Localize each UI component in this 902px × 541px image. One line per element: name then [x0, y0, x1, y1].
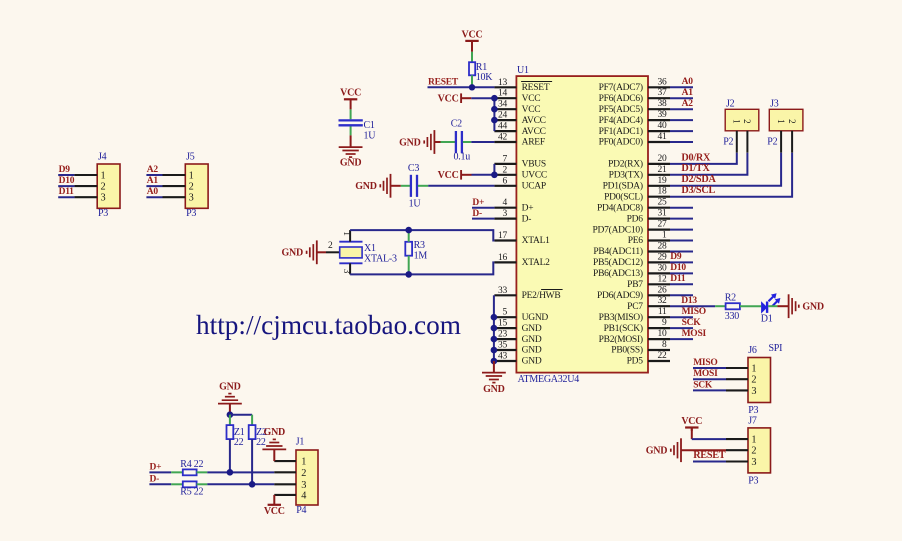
J4 pin 3 [74, 193, 105, 204]
svg-text:D13: D13 [681, 296, 697, 306]
U1 pin 43 GND [494, 352, 541, 367]
junction ground bus pin 5 [491, 314, 498, 321]
svg-text:D10: D10 [670, 263, 686, 273]
junction VCC bus pin 14 [491, 95, 498, 102]
wire R1 to RESET net [471, 75, 473, 87]
svg-text:D1: D1 [761, 313, 773, 324]
svg-text:XTAL-3: XTAL-3 [364, 253, 397, 264]
wire D+ to R4 [149, 471, 182, 473]
power VCC port at U1 pin 14 [438, 93, 461, 104]
wire unconnected net pin 26 [670, 294, 693, 296]
svg-text:1M: 1M [414, 251, 428, 262]
wire C1 to GND [350, 126, 352, 147]
svg-text:PD4(ADC8): PD4(ADC8) [597, 202, 643, 213]
wire RESET net to U1 pin 13 [428, 86, 495, 88]
svg-text:10: 10 [658, 329, 668, 339]
svg-text:38: 38 [658, 99, 668, 109]
svg-text:40: 40 [658, 121, 668, 131]
svg-text:37: 37 [658, 88, 668, 98]
wire VCC port to bus [461, 97, 494, 99]
svg-text:D-: D- [472, 209, 482, 219]
svg-text:GND: GND [522, 357, 542, 367]
net label D+ at USB [150, 463, 162, 473]
svg-text:R2: R2 [725, 292, 736, 303]
svg-text:UCAP: UCAP [522, 182, 546, 192]
wire Z2 to D- net [251, 439, 253, 484]
svg-text:MISO: MISO [682, 307, 706, 317]
wire net D13 [670, 305, 715, 307]
U1 pin 22 PD5 [627, 351, 670, 367]
svg-text:R4 22: R4 22 [180, 459, 203, 470]
svg-text:GND: GND [264, 427, 286, 438]
U1 pin 36 PF7(ADC7) [599, 77, 670, 93]
connector J5 [185, 152, 208, 220]
wire VCC to R1 [471, 52, 473, 62]
svg-text:4: 4 [503, 198, 508, 208]
J1 pin 1 [274, 457, 306, 468]
power VCC port at U1 pin 2 [438, 170, 461, 181]
url text http://cjmcu.taobao.com [196, 310, 461, 340]
U1 pin 35 GND [494, 341, 541, 356]
U1 pin 40 PF1(ADC1) [599, 121, 670, 137]
ground above J1 pin 1 [262, 427, 286, 449]
svg-text:12: 12 [658, 274, 668, 284]
svg-text:2: 2 [189, 182, 194, 193]
LED D1 [761, 293, 781, 324]
net label SCK at J6 [693, 380, 713, 390]
svg-text:25: 25 [658, 198, 668, 208]
svg-text:1: 1 [751, 435, 756, 446]
svg-text:0.1u: 0.1u [454, 152, 471, 163]
net label A0 [682, 77, 694, 87]
svg-text:PB1(SCK): PB1(SCK) [604, 323, 643, 334]
svg-text:43: 43 [498, 352, 508, 362]
svg-text:SCK: SCK [682, 318, 702, 328]
svg-text:D3/SCL: D3/SCL [681, 185, 715, 196]
svg-text:SPI: SPI [769, 343, 783, 354]
svg-text:PD1(SDA): PD1(SDA) [603, 181, 643, 192]
wire net D11 [670, 283, 693, 285]
U1 pin 26 PD6(ADC9) [597, 285, 670, 301]
svg-text:PF6(ADC6): PF6(ADC6) [599, 93, 643, 104]
net label A2 at J5 [147, 165, 159, 175]
net label D11 [670, 274, 686, 284]
svg-text:GND: GND [282, 248, 304, 259]
svg-text:PF1(ADC1): PF1(ADC1) [599, 126, 643, 137]
wire PE2 to ground bus [493, 295, 495, 318]
wire net D10 [670, 272, 693, 274]
svg-text:PD2(RX): PD2(RX) [608, 159, 643, 170]
svg-text:PB0(SS): PB0(SS) [611, 345, 643, 356]
svg-text:GND: GND [399, 137, 421, 148]
svg-text:9: 9 [662, 318, 667, 328]
U1 pin 41 PF0(ADC0) [599, 132, 670, 148]
svg-text:RESET: RESET [522, 83, 550, 93]
svg-text:1U: 1U [409, 198, 422, 209]
svg-text:1: 1 [776, 119, 786, 123]
net label SCK at U1 [682, 318, 702, 328]
X1 pin 1 stub [349, 230, 351, 242]
U1 pin 3 D- [494, 209, 531, 224]
junction VCC bus pin 34 [491, 106, 498, 113]
svg-text:5: 5 [503, 308, 508, 318]
U1 pin 21 PD3(TX) [609, 165, 670, 181]
wire C3 to U1 UCAP [418, 185, 494, 187]
svg-text:C2: C2 [451, 118, 462, 129]
svg-text:8: 8 [662, 340, 667, 350]
svg-text:PD3(TX): PD3(TX) [609, 170, 643, 181]
svg-text:VCC: VCC [522, 105, 541, 115]
svg-text:PC7: PC7 [627, 302, 643, 312]
svg-text:PD0(SCL): PD0(SCL) [604, 191, 643, 202]
svg-text:C3: C3 [408, 163, 419, 174]
wire unconnected net pin 27 [670, 229, 693, 231]
U1 pin 4 D+ [494, 198, 533, 213]
svg-text:VCC: VCC [438, 170, 459, 181]
U1 pin 5 UGND [494, 308, 548, 323]
U1 pin 34 VCC [494, 100, 540, 115]
svg-text:VCC: VCC [681, 416, 702, 427]
power VCC below J1 pin 4 [264, 495, 285, 517]
net label D9 at J4 [59, 165, 71, 175]
J7 pin 3 [726, 457, 756, 468]
U1 pin 27 PD7(ADC10) [593, 220, 670, 236]
svg-text:31: 31 [658, 209, 668, 219]
X1 pin 3 stub [349, 263, 351, 274]
U1 pin 33 PE2/HWB [494, 286, 562, 301]
junction Z2-D- [249, 481, 256, 488]
svg-text:33: 33 [498, 286, 508, 296]
svg-text:330: 330 [725, 311, 740, 322]
svg-text:J5: J5 [186, 152, 195, 163]
svg-text:13: 13 [498, 78, 508, 88]
svg-text:GND: GND [483, 384, 505, 395]
wire unconnected net pin 39 [670, 119, 693, 121]
net label MISO at J6 [693, 358, 717, 368]
U1 pin 24 AVCC [494, 111, 545, 126]
J5 pin 1 [163, 170, 194, 181]
resistor R5 22 [180, 481, 203, 497]
U1 pin 42 AREF [494, 133, 544, 148]
svg-text:J6: J6 [748, 345, 757, 356]
U1 pin 37 PF6(ADC6) [599, 88, 670, 104]
svg-text:P3: P3 [98, 208, 108, 219]
ground above Z1 Z2 [218, 381, 242, 403]
svg-text:P3: P3 [186, 208, 196, 219]
svg-text:GND: GND [522, 324, 542, 334]
svg-text:PB2(MOSI): PB2(MOSI) [599, 334, 643, 345]
wire net D+ to U1 pin 4 [472, 207, 494, 209]
junction GND Z1 Z2 [227, 411, 234, 418]
capacitor C1 1U [339, 120, 377, 141]
svg-text:P2: P2 [723, 137, 733, 148]
X1 pin 3 number [342, 269, 352, 274]
svg-text:VCC: VCC [462, 29, 483, 40]
svg-text:PF0(ADC0): PF0(ADC0) [599, 137, 643, 148]
net label A1 at J5 [147, 176, 159, 186]
wire GND to J7 pin 2 [681, 449, 726, 451]
svg-text:P3: P3 [748, 476, 758, 487]
net label D- at USB [150, 474, 160, 484]
wire unconnected net pin 1 [670, 240, 693, 242]
U1 pin 25 PD4(ADC8) [597, 198, 670, 214]
svg-text:D9: D9 [670, 252, 682, 262]
svg-text:18: 18 [658, 187, 668, 197]
svg-text:ATMEGA32U4: ATMEGA32U4 [518, 374, 580, 385]
svg-text:34: 34 [498, 100, 508, 110]
wire XTAL1 net [350, 230, 494, 240]
svg-text:D+: D+ [150, 463, 162, 473]
wire R5 to J1 pin 3 [197, 483, 275, 485]
svg-text:20: 20 [658, 154, 668, 164]
U1 pin 12 PB7 [627, 274, 670, 290]
svg-text:PD5: PD5 [627, 357, 644, 367]
wire net MOSI to J6 [693, 378, 726, 380]
wire net A2 to J5 [146, 174, 162, 176]
J5 pin 3 [163, 193, 194, 204]
svg-text:D+: D+ [522, 203, 534, 213]
wire unconnected net pin 41 [670, 141, 693, 143]
U1 pin 23 GND [494, 330, 541, 345]
svg-text:D10: D10 [59, 176, 75, 186]
resistor R3 1M [405, 240, 427, 262]
svg-text:16: 16 [498, 253, 508, 263]
U1 pin 10 PB2(MOSI) [599, 329, 670, 345]
svg-text:A1: A1 [147, 176, 159, 186]
net label A2 [682, 99, 694, 109]
U1 pin 15 GND [494, 319, 541, 334]
J1 pin 3 [274, 480, 306, 491]
junction ground bus pin 43 [491, 358, 498, 365]
ground left of C2 [399, 130, 434, 154]
J2 pin 2 [742, 119, 752, 153]
wire net MISO at U1 [670, 316, 693, 318]
svg-text:1: 1 [189, 170, 194, 181]
svg-text:PF4(ADC4): PF4(ADC4) [599, 115, 643, 126]
svg-text:4: 4 [301, 490, 306, 501]
ground below U1 [482, 373, 506, 395]
svg-text:GND: GND [522, 335, 542, 345]
J1 pin 2 [274, 468, 306, 479]
connector J1 [296, 437, 318, 516]
U1 designator label [517, 65, 529, 76]
net label D- at U1 [472, 209, 482, 219]
wire net A1 to J5 [146, 185, 162, 187]
U1 pin 19 PD1(SDA) [603, 176, 670, 192]
svg-text:44: 44 [498, 122, 508, 132]
junction R1-RESET [469, 84, 475, 90]
wire D13 to R2 [715, 305, 726, 307]
junction VCC bus pin 24 [491, 117, 498, 124]
svg-text:GND: GND [355, 181, 377, 192]
wire net D2/SDA [670, 153, 781, 186]
J6 pin 2 [726, 375, 756, 386]
J7 pin 1 [726, 435, 756, 446]
J2 pin 1 [732, 119, 742, 153]
ground left of X1 [282, 240, 317, 264]
svg-text:XTAL2: XTAL2 [522, 258, 551, 268]
wire net A0 to J5 [146, 196, 162, 198]
svg-text:R3: R3 [414, 240, 425, 251]
svg-text:RESET: RESET [693, 450, 726, 461]
svg-text:D2/SDA: D2/SDA [681, 174, 716, 185]
svg-text:GND: GND [646, 446, 668, 457]
svg-text:7: 7 [503, 154, 508, 164]
svg-text:GND: GND [219, 381, 241, 392]
wire LED to GND [768, 305, 788, 307]
svg-text:3: 3 [751, 457, 756, 468]
svg-text:2: 2 [503, 165, 508, 175]
U1 pin 44 AVCC [494, 122, 545, 137]
wire GND to J1 pin 1 [273, 449, 275, 461]
U1 pin 30 PB6(ADC13) [593, 263, 670, 279]
svg-text:J1: J1 [296, 437, 305, 448]
svg-text:XTAL1: XTAL1 [522, 236, 551, 246]
svg-text:36: 36 [658, 77, 668, 87]
svg-text:2: 2 [742, 119, 752, 123]
svg-text:VBUS: VBUS [522, 160, 546, 170]
wire VCC to C1 [350, 109, 352, 119]
ground at J7 [646, 438, 681, 462]
svg-text:A0: A0 [147, 187, 159, 197]
U1 pin 16 XTAL2 [494, 253, 550, 268]
svg-text:A2: A2 [147, 165, 159, 175]
wire GND to C3 [391, 185, 411, 187]
svg-text:VCC: VCC [522, 94, 541, 104]
svg-text:2: 2 [751, 375, 756, 386]
svg-text:3: 3 [301, 480, 306, 491]
svg-text:2: 2 [101, 182, 106, 193]
svg-text:A2: A2 [682, 99, 694, 109]
svg-text:MISO: MISO [693, 358, 717, 368]
svg-text:14: 14 [498, 89, 508, 99]
svg-text:42: 42 [498, 133, 508, 143]
wire net D10 to J4 [58, 185, 74, 187]
J4 pin 2 [74, 182, 105, 193]
svg-text:PB4(ADC11): PB4(ADC11) [593, 246, 642, 257]
svg-text:D1/TX: D1/TX [681, 163, 710, 174]
net label MOSI at J6 [693, 369, 718, 379]
svg-text:26: 26 [658, 285, 668, 295]
resistor R2 330 [725, 292, 740, 322]
U1 pin 14 VCC [494, 89, 540, 104]
U1 pin 6 UCAP [494, 176, 546, 191]
crystal X1 XTAL-3 [339, 242, 397, 265]
net label RESET [428, 77, 459, 87]
svg-text:UGND: UGND [522, 313, 549, 323]
svg-text:D-: D- [522, 214, 532, 224]
U1 part name ATMEGA32U4 [518, 374, 580, 385]
svg-text:VCC: VCC [438, 94, 459, 105]
svg-text:PD6(ADC9): PD6(ADC9) [597, 290, 643, 301]
junction ground bus pin 15 [491, 325, 498, 332]
svg-text:1: 1 [662, 231, 667, 241]
svg-text:35: 35 [498, 341, 508, 351]
svg-text:VCC: VCC [264, 506, 285, 517]
svg-text:3: 3 [101, 193, 106, 204]
wire R2 to LED D1 [740, 305, 761, 307]
junction UVCC pin 2 [491, 172, 498, 179]
svg-text:22: 22 [234, 437, 244, 448]
svg-text:23: 23 [498, 330, 508, 340]
wire net D0/RX [670, 153, 737, 164]
U1 pin 18 PD0(SCL) [604, 187, 670, 203]
J5 pin 2 [163, 182, 194, 193]
U1 pin 17 XTAL1 [494, 231, 550, 246]
net label D2/SDA [681, 174, 716, 185]
ground below C1 [339, 147, 363, 169]
connector J7 [748, 415, 771, 486]
U1 pin 32 PC7 [627, 296, 670, 312]
net label D10 at J4 [59, 176, 75, 186]
svg-text:PB6(ADC13): PB6(ADC13) [593, 268, 643, 279]
wire junction to Z1 top [229, 415, 231, 425]
net label D0/RX [681, 152, 711, 163]
U1 pin 29 PB5(ADC12) [593, 252, 670, 268]
junction R3-XTAL2 [405, 271, 412, 278]
connector J6 [748, 343, 782, 416]
net label MISO at U1 [682, 307, 706, 317]
svg-text:15: 15 [498, 319, 508, 329]
IC U1 ATMEGA32U4 body [516, 76, 648, 373]
svg-text:24: 24 [498, 111, 508, 121]
wire ground bus vertical pins 5-43 [493, 318, 495, 361]
wire net D11 to J4 [58, 196, 74, 198]
ground right of LED D1 [789, 294, 824, 318]
svg-text:2: 2 [751, 446, 756, 457]
wire C2 to U1 AREF [463, 141, 495, 143]
net label D13 [681, 296, 697, 306]
net label A1 [682, 88, 694, 98]
resistor Z2 22 [249, 425, 267, 448]
resistor Z1 22 [227, 425, 245, 448]
wire net D9 to J4 [58, 174, 74, 176]
svg-text:D+: D+ [472, 198, 484, 208]
U1 pin 31 PD6 [627, 209, 670, 225]
J3 pin 2 [787, 119, 797, 153]
svg-text:28: 28 [658, 242, 668, 252]
U1 pin 1 PE6 [628, 231, 670, 247]
svg-text:6: 6 [503, 176, 508, 186]
svg-text:22: 22 [256, 437, 266, 448]
svg-text:MOSI: MOSI [693, 369, 718, 379]
svg-text:PE2/HWB: PE2/HWB [522, 291, 561, 301]
net label D10 [670, 263, 686, 273]
svg-text:U1: U1 [517, 65, 529, 76]
wire R3 top [408, 230, 410, 242]
svg-text:39: 39 [658, 110, 668, 120]
U1 pin 9 PB1(SCK) [604, 318, 670, 334]
net label D9 [670, 252, 682, 262]
wire RESET to J7 pin 3 [693, 461, 726, 463]
wire D- to R5 [149, 483, 182, 485]
svg-text:30: 30 [658, 263, 668, 273]
resistor R4 22 [180, 459, 203, 475]
svg-text:X1: X1 [364, 243, 376, 254]
svg-text:17: 17 [498, 231, 508, 241]
wire net MISO to J6 [693, 367, 726, 369]
junction ground bus pin 35 [491, 347, 498, 354]
svg-text:41: 41 [658, 132, 668, 142]
svg-text:AREF: AREF [522, 138, 545, 148]
svg-text:D9: D9 [59, 165, 71, 175]
svg-text:RESET: RESET [428, 77, 459, 87]
svg-text:11: 11 [658, 307, 667, 317]
svg-text:19: 19 [658, 176, 668, 186]
U1 pin 11 PB3(MISO) [599, 307, 670, 323]
net label MOSI at U1 [682, 329, 707, 339]
wire net A1 [670, 97, 693, 99]
